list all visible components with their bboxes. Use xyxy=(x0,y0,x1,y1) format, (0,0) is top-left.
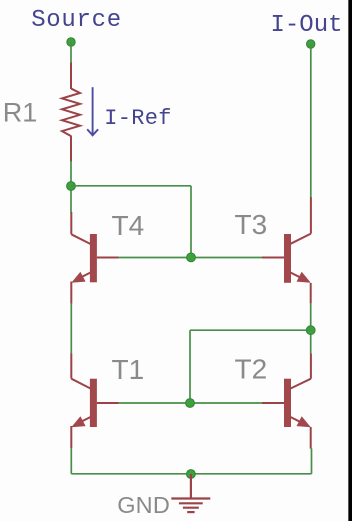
svg-text:I-Ref: I-Ref xyxy=(104,106,172,131)
svg-text:R1: R1 xyxy=(3,98,38,128)
black screen edge right xyxy=(349,0,352,521)
transistor T1 xyxy=(71,354,118,449)
ground xyxy=(171,474,210,512)
wire node A to feedback corner xyxy=(71,185,191,187)
wire Source dot to R1 top xyxy=(70,42,72,63)
svg-text:Source: Source xyxy=(31,7,122,34)
node D junction dot (bases of T1,T2) xyxy=(186,399,195,408)
wire corner down to base node D xyxy=(189,330,191,403)
wire base row T1 to T2 xyxy=(118,402,263,404)
node Source pin dot xyxy=(67,38,75,46)
wire T3 emitter to T2 collector xyxy=(310,303,312,354)
transistor T3 xyxy=(262,197,311,303)
node E junction dot (ground tap) xyxy=(187,470,196,479)
node C junction dot (T3 emitter / T2 collector / branch) xyxy=(306,326,315,335)
transistor T4 xyxy=(71,212,118,304)
wire base row T4 to T3 xyxy=(118,257,263,259)
resistor R1 xyxy=(62,63,80,162)
wire T4 emitter to T1 collector xyxy=(70,303,72,354)
wire bottom rail xyxy=(71,473,311,475)
svg-text:T2: T2 xyxy=(235,353,268,384)
svg-text:T1: T1 xyxy=(112,354,145,385)
I-Ref current arrow xyxy=(87,87,98,135)
svg-text:T3: T3 xyxy=(235,209,268,240)
transistor T2 xyxy=(262,354,311,449)
svg-text:T4: T4 xyxy=(112,210,145,241)
wire I-Out dot down to T3 collector xyxy=(310,44,312,198)
wire node C left to corner xyxy=(190,329,311,331)
node A junction dot (R1 bottom / T4 collector / feedback) xyxy=(67,182,76,191)
wire T1 emitter down to bottom rail xyxy=(70,448,72,474)
svg-text:I-Out: I-Out xyxy=(271,12,343,39)
wire R1 bottom to node A xyxy=(70,161,72,213)
svg-text:GND: GND xyxy=(117,492,170,518)
node B junction dot (bases of T4,T3) xyxy=(187,253,196,262)
wire feedback corner down to base node B xyxy=(190,186,192,258)
node I-Out pin dot xyxy=(307,40,315,48)
wire T2 emitter down to bottom rail xyxy=(311,448,313,473)
